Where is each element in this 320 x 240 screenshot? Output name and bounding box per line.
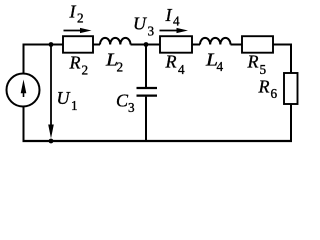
label R2	[69, 53, 89, 78]
capacitor C3 plates	[137, 88, 158, 96]
inductor L2	[100, 38, 131, 45]
current arrow I2	[64, 28, 92, 33]
wire: left vertical above source	[23, 44, 25, 74]
svg-text:2: 2	[117, 60, 124, 75]
svg-text:1: 1	[71, 98, 78, 113]
inductor L4	[200, 38, 231, 45]
resistor R2	[63, 36, 93, 53]
label U1	[57, 88, 78, 113]
label C3	[116, 91, 135, 116]
resistor R6	[284, 73, 298, 104]
node: U1 arrow top junction dot	[49, 42, 54, 47]
svg-text:U: U	[133, 14, 147, 34]
svg-text:R: R	[165, 52, 177, 72]
current arrow I4	[160, 28, 189, 33]
current source arrow (up)	[21, 80, 27, 98]
current source U1 (circle)	[7, 74, 40, 107]
svg-text:2: 2	[82, 63, 89, 78]
label L4	[205, 50, 224, 75]
svg-text:U: U	[57, 88, 71, 108]
label U3	[133, 14, 155, 39]
node: U1 arrow bottom junction dot	[49, 139, 54, 144]
svg-text:R: R	[258, 77, 270, 97]
capacitor C3 lower lead	[145, 97, 147, 141]
label R5	[247, 52, 267, 78]
svg-text:5: 5	[260, 62, 267, 77]
wire: bottom horizontal	[23, 140, 293, 142]
svg-text:I: I	[69, 2, 77, 22]
wire: right vertical above R6	[290, 44, 292, 74]
wire: R4 to L4	[192, 44, 200, 46]
node U3 (junction dot)	[144, 42, 149, 47]
svg-text:4: 4	[217, 59, 224, 74]
label R6	[258, 77, 278, 102]
svg-text:3: 3	[128, 100, 135, 115]
svg-text:4: 4	[178, 62, 185, 77]
label I2	[69, 2, 84, 26]
wire: R5 to top-right corner	[273, 44, 291, 46]
wire: top left horizontal (corner to R2)	[24, 44, 64, 46]
svg-text:R: R	[69, 53, 81, 73]
label L2	[105, 50, 123, 75]
wire: right vertical below R6	[290, 104, 292, 142]
wire: L2 to R4 (through node U3)	[131, 44, 161, 46]
capacitor C3 branch: upper lead	[145, 45, 147, 88]
resistor R4	[160, 36, 192, 53]
label R4	[165, 52, 186, 78]
resistor R5	[242, 36, 273, 53]
svg-text:R: R	[247, 52, 259, 72]
wire: R2 to L2	[93, 44, 100, 46]
voltage arrow U1 (down)	[48, 46, 54, 139]
label I4	[165, 5, 181, 29]
svg-text:I: I	[165, 5, 173, 25]
wire: left vertical below source	[23, 106, 25, 141]
wire: L4 to R5	[231, 44, 243, 46]
svg-text:3: 3	[148, 24, 155, 39]
svg-text:2: 2	[77, 11, 84, 26]
svg-text:4: 4	[173, 14, 180, 29]
svg-text:6: 6	[271, 86, 278, 101]
